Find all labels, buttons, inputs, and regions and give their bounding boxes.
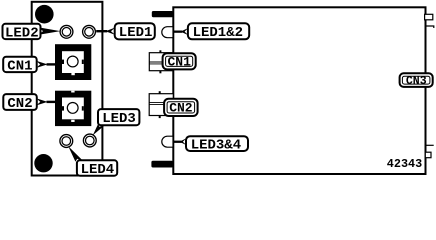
- svg-text:CN2: CN2: [7, 96, 32, 112]
- svg-text:CN2: CN2: [169, 101, 193, 116]
- svg-text:42343: 42343: [387, 157, 422, 171]
- svg-text:CN3: CN3: [406, 75, 427, 88]
- svg-text:LED2: LED2: [5, 25, 39, 41]
- svg-text:LED4: LED4: [81, 162, 115, 178]
- svg-text:LED3: LED3: [102, 111, 136, 127]
- svg-text:LED1: LED1: [119, 25, 153, 41]
- svg-text:CN1: CN1: [168, 55, 192, 70]
- svg-text:LED1&2: LED1&2: [193, 25, 243, 41]
- svg-text:CN1: CN1: [7, 58, 32, 74]
- svg-text:LED3&4: LED3&4: [191, 137, 241, 153]
